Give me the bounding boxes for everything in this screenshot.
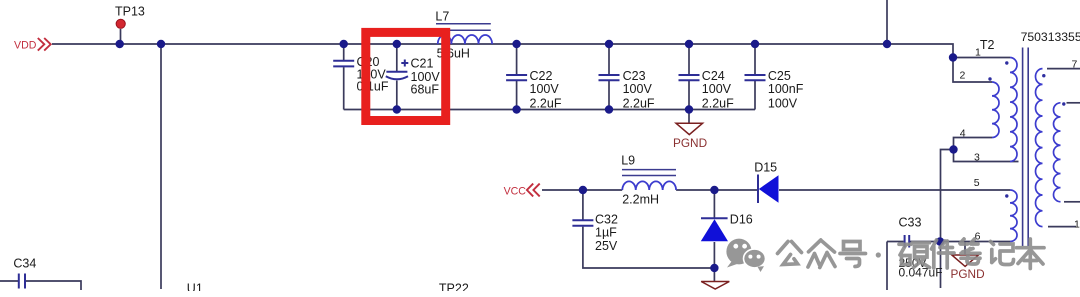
svg-text:7: 7 [1072,59,1078,71]
svg-text:C33: C33 [899,216,922,230]
svg-text:TP13: TP13 [115,4,145,18]
svg-text:L9: L9 [621,154,635,168]
svg-text:100V: 100V [623,82,653,96]
svg-text:C32: C32 [595,212,618,226]
svg-text:2.2uF: 2.2uF [702,96,734,110]
svg-text:C21: C21 [411,57,434,71]
svg-text:100nF: 100nF [768,82,804,96]
svg-text:1µF: 1µF [595,226,617,240]
svg-text:PGND: PGND [673,136,707,150]
svg-text:PGND: PGND [951,267,985,281]
svg-text:3: 3 [974,151,980,163]
svg-text:2.2uF: 2.2uF [623,96,655,110]
svg-text:C24: C24 [702,69,725,83]
svg-text:750313355: 750313355 [1021,30,1080,44]
svg-text:68uF: 68uF [411,83,440,97]
svg-text:1: 1 [1074,219,1080,231]
svg-text:1: 1 [975,47,981,59]
svg-text:C25: C25 [768,69,791,83]
svg-text:0.047uF: 0.047uF [899,266,943,280]
svg-text:D15: D15 [754,161,777,175]
svg-text:100V: 100V [768,96,798,110]
svg-text:L7: L7 [435,10,449,24]
svg-text:25V: 25V [595,239,618,253]
svg-text:VCC: VCC [504,186,527,198]
svg-text:2.2uF: 2.2uF [530,96,562,110]
svg-text:2.2mH: 2.2mH [622,192,659,206]
svg-text:2: 2 [960,69,966,81]
svg-text:C22: C22 [530,69,553,83]
svg-text:C23: C23 [623,69,646,83]
svg-text:5: 5 [974,177,980,189]
svg-text:100V: 100V [702,82,732,96]
svg-text:100V: 100V [530,82,560,96]
svg-text:C34: C34 [13,256,36,270]
svg-text:T2: T2 [980,38,995,52]
svg-text:D16: D16 [730,213,753,227]
svg-text:4: 4 [960,127,966,139]
svg-text:VDD: VDD [14,40,37,52]
